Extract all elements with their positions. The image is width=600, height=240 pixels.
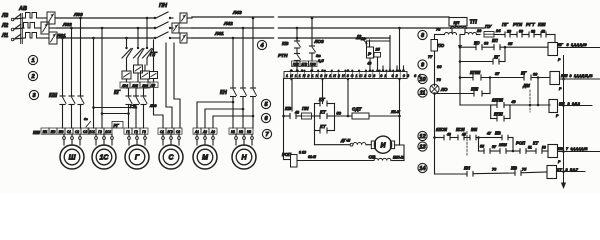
coil KN: [549, 100, 558, 113]
motor N: [232, 145, 256, 169]
switch VI dashed link: [466, 132, 468, 157]
svg-text:51: 51: [528, 146, 532, 150]
svg-text:КВ: КВ: [495, 131, 501, 136]
svg-text:Л3: Л3: [1, 13, 8, 19]
svg-text:ТП: ТП: [470, 20, 478, 26]
coil KSh: [550, 72, 560, 85]
svg-text:КТ: КТ: [320, 124, 327, 129]
AB linkage bar: [20, 14, 22, 44]
svg-text:33: 33: [484, 42, 489, 46]
svg-text:3: 3: [32, 93, 36, 99]
row marker 6: [261, 113, 270, 122]
svg-text:Г1: Г1: [126, 130, 130, 134]
release element phase2: [41, 22, 49, 34]
svg-text:КС: КС: [474, 41, 481, 46]
svg-text:СДТ: СДТ: [352, 107, 363, 112]
row marker 14: [418, 163, 427, 172]
svg-text:3: 3: [570, 74, 572, 78]
wire drops to PG contactor: [126, 38, 128, 48]
rectifier VO arrow: [458, 39, 462, 49]
svg-text:Л04: Л04: [121, 84, 128, 88]
svg-text:24: 24: [495, 28, 501, 33]
svg-text:А3: А3: [210, 130, 215, 134]
svg-text:КГ: КГ: [558, 42, 563, 47]
svg-text:А2: А2: [202, 130, 207, 134]
svg-text:РОП: РОП: [516, 141, 526, 146]
wire drop L03 branch: [311, 18, 313, 46]
fuse P phase1: [180, 13, 187, 23]
wire drops to 1S motor: [93, 38, 95, 128]
rung KV PI KT SDT: [284, 115, 291, 117]
svg-text:Л03: Л03: [149, 104, 156, 108]
svg-text:1Н11Н21Н3Н1Н2Н3С1С2С3 01 02 03: 1Н11Н21Н3Н1Н2Н3С1С2С3 01 02 03 04: [286, 74, 422, 78]
svg-text:КПИ: КПИ: [494, 112, 504, 117]
svg-text:Л41: Л41: [214, 31, 224, 37]
release element phase1: [47, 12, 55, 24]
long wire from bus L42 down: [399, 28, 401, 71]
row marker 5: [261, 99, 270, 108]
svg-text:Р: Р: [558, 58, 561, 62]
svg-text:1,3,3,5,11,13: 1,3,3,5,11,13: [574, 74, 593, 78]
svg-text:Л05: Л05: [131, 84, 138, 88]
row marker 11: [418, 88, 427, 97]
motor Sh: [60, 145, 84, 169]
terminal labels under PG: [120, 82, 130, 88]
terminal row G motor: [124, 128, 132, 134]
svg-text:ВИ: ВИ: [471, 127, 478, 132]
svg-text:8: 8: [421, 33, 425, 39]
secondary winding left: [445, 33, 457, 35]
svg-text:РГ: РГ: [114, 123, 120, 128]
svg-text:10: 10: [419, 77, 426, 83]
row marker 9: [418, 60, 427, 69]
svg-text:И: И: [380, 142, 386, 149]
svg-text:Н1: Н1: [231, 130, 235, 134]
svg-text:С3: С3: [176, 130, 180, 134]
svg-text:АВ: АВ: [18, 6, 27, 12]
svg-text:КВ: КВ: [511, 166, 518, 171]
svg-text:1С1: 1С1: [89, 130, 95, 134]
terminal row S motor: [158, 128, 166, 134]
svg-text:Л2: Л2: [1, 23, 8, 29]
svg-text:1: 1: [31, 58, 34, 64]
motor M leads: [196, 134, 198, 136]
fuse P phase2: [172, 23, 179, 33]
svg-text:Н2: Н2: [239, 130, 243, 134]
wire drop to KT group: [322, 79, 324, 104]
svg-text:ПУ: ПУ: [485, 24, 492, 29]
svg-text:1С3: 1С3: [105, 130, 111, 134]
rung R6 KN KV KT-coil: [435, 173, 468, 175]
svg-text:53: 53: [542, 146, 546, 150]
terminal row M motor: [193, 128, 201, 134]
svg-text:35: 35: [508, 42, 513, 46]
svg-text:КПШ: КПШ: [470, 70, 481, 75]
motor S: [159, 145, 183, 169]
svg-text:М: М: [202, 155, 208, 162]
svg-text:73: 73: [492, 168, 497, 172]
terminal strip: [296, 69, 299, 72]
wire drop KV RTN: [296, 28, 298, 41]
svg-text:2КМ: 2КМ: [498, 143, 507, 147]
svg-text:6: 6: [264, 116, 268, 122]
row marker 2: [28, 71, 37, 80]
KT parallel contact group: [314, 104, 316, 131]
svg-text:48: 48: [294, 111, 299, 115]
row marker 7: [262, 129, 271, 138]
svg-text:80: 80: [437, 64, 442, 69]
svg-text:50: 50: [337, 111, 342, 116]
svg-text:Г: Г: [135, 155, 140, 162]
svg-text:КШ: КШ: [33, 130, 41, 135]
motor G leads: [128, 134, 130, 136]
svg-text:Л0: Л0: [150, 83, 155, 87]
element Zv 0.5: [310, 46, 316, 53]
wire drops to KSh contacts: [62, 38, 64, 96]
svg-text:С1: С1: [67, 130, 71, 134]
svg-text:Л02: Л02: [62, 22, 72, 28]
svg-text:6,4,4,4,6,12: 6,4,4,4,6,12: [571, 147, 588, 151]
thermal element RT2: [134, 65, 143, 73]
svg-text:РТН: РТН: [278, 53, 288, 59]
fuse P phase3: [180, 33, 187, 43]
svg-text:КШ: КШ: [561, 73, 567, 78]
svg-text:КШ: КШ: [471, 87, 479, 92]
svg-text:ЛО: ЛО: [440, 87, 448, 92]
svg-text:Р: Р: [368, 52, 372, 57]
secondary winding right: [465, 33, 477, 35]
svg-text:КГ: КГ: [114, 90, 121, 96]
terminal row N motor: [229, 128, 237, 134]
svg-text:14: 14: [419, 166, 426, 172]
terminal row 1S: [88, 128, 96, 134]
motor G: [125, 145, 149, 169]
svg-text:ПН: ПН: [159, 3, 168, 9]
svg-text:1С: 1С: [100, 155, 110, 162]
wire to armature: [399, 116, 401, 145]
svg-text:77: 77: [428, 55, 433, 59]
svg-text:Р: Р: [559, 87, 562, 91]
svg-text:1КПИ: 1КПИ: [492, 98, 504, 103]
row marker 10: [418, 74, 427, 83]
switch SV mini: [86, 122, 91, 128]
svg-text:1,3,3,9,10: 1,3,3,9,10: [571, 43, 587, 47]
svg-text:49: 49: [511, 100, 516, 104]
wire R2 to R3 link: [537, 78, 539, 106]
svg-text:46: 46: [367, 62, 372, 66]
row marker 8: [418, 30, 427, 39]
wires KN to motors M and N: [197, 97, 233, 129]
breaker release teeth phase3: [24, 33, 38, 39]
brush left: [371, 141, 375, 149]
svg-text:Л42: Л42: [223, 21, 233, 27]
motor S leads: [162, 134, 164, 136]
svg-text:ДМ: ДМ: [522, 83, 530, 88]
thermal element RT1: [122, 71, 131, 79]
svg-text:ПИ: ПИ: [302, 106, 309, 111]
svg-text:КВ: КВ: [558, 146, 563, 151]
svg-text:КН: КН: [220, 90, 227, 96]
svg-text:Ш3: Ш3: [59, 130, 64, 134]
svg-text:КШ: КШ: [538, 22, 546, 27]
motor 1S leads: [95, 134, 97, 136]
svg-text:Г2: Г2: [98, 130, 102, 134]
svg-text:11: 11: [420, 91, 426, 97]
svg-text:КВ: КВ: [282, 41, 289, 47]
svg-text:КШ: КШ: [49, 93, 57, 99]
coil KT: [547, 166, 557, 179]
svg-text:1П2: 1П2: [301, 62, 307, 66]
svg-text:Ш1: Ш1: [43, 130, 48, 134]
row marker 12: [418, 131, 427, 140]
svg-text:КП: КП: [492, 38, 499, 43]
svg-text:Р: Р: [556, 114, 559, 118]
release element phase3: [49, 32, 57, 44]
row marker 1: [28, 55, 37, 64]
svg-text:3: 3: [567, 43, 570, 47]
svg-text:Р: Р: [558, 160, 561, 164]
strip stubs: [382, 66, 384, 71]
svg-text:А1: А1: [194, 130, 199, 134]
svg-text:02-И: 02-И: [308, 155, 316, 159]
svg-text:Ш: Ш: [69, 155, 76, 162]
svg-text:9: 9: [421, 63, 425, 69]
svg-text:25: 25: [375, 48, 381, 52]
svg-text:Г2: Г2: [130, 104, 136, 109]
svg-text:1КСИ: 1КСИ: [436, 127, 448, 132]
svg-text:Ш2: Ш2: [51, 130, 56, 134]
rung R1b KS KTU: [460, 46, 476, 48]
svg-text:13: 13: [419, 145, 426, 151]
svg-text:Г2: Г2: [134, 130, 138, 134]
svg-text:45: 45: [461, 133, 466, 137]
row marker 13: [418, 142, 427, 151]
svg-text:7: 7: [265, 132, 269, 138]
row marker 4: [257, 40, 266, 49]
svg-text:РТИ: РТИ: [513, 22, 523, 27]
thermal element RT3: [141, 71, 150, 79]
return rail with ground arrow: [563, 56, 565, 184]
svg-text:Л1: Л1: [1, 33, 8, 39]
brush right: [390, 141, 394, 149]
breaker release teeth phase2: [22, 23, 36, 29]
wire to KG coil: [554, 35, 556, 43]
svg-text:ПГ: ПГ: [502, 22, 508, 27]
svg-text:1Г2: 1Г2: [167, 130, 173, 134]
row marker 3: [29, 90, 38, 99]
svg-text:ШП-И: ШП-И: [393, 156, 404, 160]
svg-text:П03: П03: [310, 62, 316, 66]
svg-text:0,5: 0,5: [318, 58, 324, 63]
svg-text:2: 2: [30, 74, 35, 80]
svg-text:37: 37: [495, 72, 500, 76]
motor N leads: [235, 134, 237, 136]
coil KV: [548, 145, 558, 158]
svg-text:5: 5: [264, 102, 268, 108]
svg-text:КТ: КТ: [533, 141, 539, 146]
svg-text:Н: Н: [241, 155, 247, 162]
svg-text:55: 55: [480, 145, 485, 149]
svg-text:П02: П02: [293, 62, 299, 66]
svg-text:РГТ: РГТ: [526, 22, 536, 27]
coil KG: [548, 43, 558, 56]
wire drops to KN contacts: [232, 38, 234, 88]
svg-text:КН: КН: [464, 166, 471, 171]
armature I of generator: [374, 136, 391, 153]
label RG: [112, 122, 123, 129]
motor Sh leads: [63, 134, 65, 136]
svg-text:Я1-И: Я1-И: [390, 110, 400, 114]
wires to S motor: [174, 43, 180, 128]
svg-text:47: 47: [486, 132, 492, 136]
svg-text:КСИ: КСИ: [456, 127, 466, 132]
svg-text:ЦП: ЦП: [454, 20, 460, 25]
svg-text:С: С: [168, 155, 174, 162]
svg-text:ЛОЗ: ЛОЗ: [314, 39, 324, 44]
rung R3 1KPI DN KN-coil: [460, 104, 491, 106]
svg-text:С2: С2: [75, 130, 79, 134]
signal lamp LO: [430, 84, 439, 93]
svg-text:ДГ-И: ДГ-И: [340, 139, 350, 143]
svg-text:79: 79: [437, 78, 442, 82]
svg-text:Л03: Л03: [73, 12, 83, 18]
wire KT group to choke: [314, 131, 316, 145]
terminal labels P02 row: [292, 61, 301, 67]
svg-text:57: 57: [492, 145, 497, 149]
left rail of exciter circuit: [283, 79, 285, 160]
rung R5 ROP KT KV-coil: [478, 138, 480, 152]
breaker release teeth phase1: [24, 13, 38, 19]
motor 1S: [92, 145, 116, 169]
svg-text:С1: С1: [160, 130, 164, 134]
svg-text:Г3: Г3: [142, 130, 146, 134]
svg-text:75: 75: [522, 168, 527, 172]
svg-text:7: 7: [566, 147, 569, 151]
svg-text:С3: С3: [83, 130, 87, 134]
svg-text:26: 26: [476, 29, 482, 33]
svg-text:12: 12: [419, 134, 426, 140]
svg-text:Л43: Л43: [232, 10, 242, 16]
motor M: [193, 145, 217, 169]
svg-text:4: 4: [259, 43, 264, 49]
svg-text:3 13: 3 13: [299, 151, 306, 155]
wires R to strip: [369, 58, 371, 71]
svg-text:КВ: КВ: [285, 106, 292, 111]
left rail with PO and lamp LO: [434, 35, 436, 40]
svg-text:КТ: КТ: [320, 110, 327, 115]
svg-text:Н3: Н3: [247, 130, 251, 134]
svg-text:Л06: Л06: [141, 84, 148, 88]
svg-text:Зв: Зв: [84, 117, 88, 121]
svg-text:ПО: ПО: [438, 43, 445, 48]
jog wires 1S to G zone: [94, 107, 137, 109]
svg-text:39: 39: [533, 73, 538, 77]
